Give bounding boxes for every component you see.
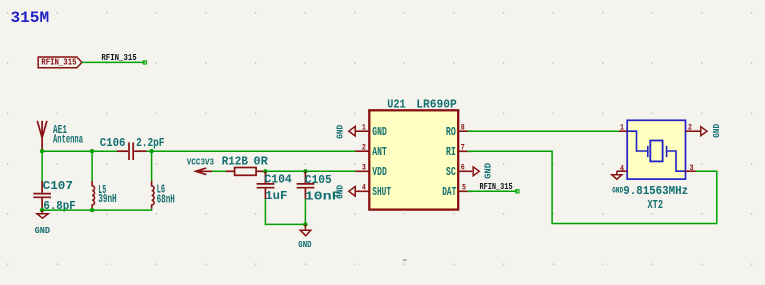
junction C107 bottom <box>40 208 44 212</box>
svg-text:4: 4 <box>362 183 366 193</box>
svg-text:0R: 0R <box>253 155 268 169</box>
svg-text:39nH: 39nH <box>98 192 116 206</box>
ground arrow at pin 4 <box>349 187 355 197</box>
svg-text:2: 2 <box>688 122 692 132</box>
svg-text:XT2: XT2 <box>648 198 664 212</box>
ground arrow at pin 1 <box>349 126 355 136</box>
wire RFIN_315 <box>82 61 145 63</box>
ground under C105 <box>300 224 311 235</box>
svg-text:1: 1 <box>362 123 366 133</box>
pin 6 SC stub <box>458 170 472 172</box>
svg-text:315M: 315M <box>11 9 50 27</box>
capacitor C107 <box>33 181 51 210</box>
pin 4 SHUT stub <box>355 190 369 192</box>
crystal pin 4 stub <box>617 170 627 172</box>
svg-text:GND: GND <box>711 124 722 138</box>
wire VCC to R12B <box>212 170 227 172</box>
ground under C107 <box>37 210 48 218</box>
wire DAT net <box>468 190 518 192</box>
svg-text:GND: GND <box>335 185 346 199</box>
ground arrow at pin 6 <box>473 167 479 176</box>
crystal pin 3 stub <box>685 170 696 172</box>
svg-text:VCC3V3: VCC3V3 <box>187 157 215 168</box>
svg-text:3: 3 <box>362 163 366 173</box>
capacitor C105 <box>297 171 315 199</box>
junction antenna <box>40 149 44 153</box>
wire bottom rail left <box>42 209 152 210</box>
svg-text:9.81563MHz: 9.81563MHz <box>623 184 688 198</box>
inductor L6 <box>152 181 154 209</box>
svg-text:5: 5 <box>462 183 466 193</box>
junction L5 top <box>90 149 94 153</box>
svg-text:C106: C106 <box>100 136 126 150</box>
stray mark <box>403 259 407 261</box>
svg-text:VDD: VDD <box>372 165 387 179</box>
wire antenna down to C107 <box>41 151 43 182</box>
svg-text:GND: GND <box>372 125 387 139</box>
resistor R12B <box>226 168 265 176</box>
wire RI route to crystal pin3 <box>468 151 717 223</box>
crystal internal symbol <box>627 131 685 171</box>
svg-text:RFIN_315: RFIN_315 <box>41 57 76 68</box>
wire ANT net horizontal <box>42 150 117 152</box>
svg-text:DAT: DAT <box>442 185 456 199</box>
capacitor C106 <box>117 142 147 160</box>
svg-text:8: 8 <box>461 123 465 133</box>
svg-text:3: 3 <box>690 163 694 173</box>
pin 3 VDD stub <box>355 170 369 172</box>
op IC U21 LR690P body <box>369 110 458 209</box>
svg-text:7: 7 <box>461 143 465 153</box>
pin 7 RI stub <box>458 150 472 152</box>
ground at crystal pin 4 <box>612 171 622 179</box>
wire C106 to pin2 <box>147 150 357 152</box>
crystal pin 2 stub <box>686 130 701 132</box>
svg-text:GND: GND <box>612 186 623 196</box>
wire RO to crystal pin1 <box>468 130 620 132</box>
svg-text:GND: GND <box>298 239 311 250</box>
svg-text:RO: RO <box>446 125 456 139</box>
svg-text:LR690P: LR690P <box>416 97 457 111</box>
pin 8 RO stub <box>458 130 472 132</box>
junction C105 top <box>303 169 307 173</box>
svg-text:2.2pF: 2.2pF <box>136 136 164 150</box>
svg-text:ANT: ANT <box>372 145 387 159</box>
svg-text:RFIN_315: RFIN_315 <box>480 181 513 192</box>
wire C104 bottom <box>265 199 305 224</box>
junction L5 bottom <box>90 208 94 212</box>
junction C105 bottom <box>303 222 307 226</box>
wire down to L6 <box>151 151 153 181</box>
junction L6 top <box>149 149 153 153</box>
svg-text:4: 4 <box>620 163 624 173</box>
antenna AE1 <box>37 121 47 151</box>
svg-text:SHUT: SHUT <box>372 185 391 199</box>
svg-text:68nH: 68nH <box>157 193 175 207</box>
power flag VCC3V3 <box>196 168 212 175</box>
svg-text:2: 2 <box>362 143 366 153</box>
hierarchical label RFIN_315 <box>38 57 82 68</box>
inductor L5 <box>92 181 94 209</box>
svg-text:U21: U21 <box>387 97 405 111</box>
svg-text:C105: C105 <box>305 173 332 187</box>
svg-text:GND: GND <box>335 125 346 139</box>
net label RFIN_315 at DAT <box>516 190 519 193</box>
wire C105 bottom <box>304 199 306 224</box>
wire down to L5 <box>91 151 93 181</box>
crystal pin 1 stub <box>619 130 627 132</box>
capacitor C104 <box>257 171 275 199</box>
svg-text:GND: GND <box>483 163 494 179</box>
svg-text:C104: C104 <box>264 173 291 187</box>
svg-text:GND: GND <box>35 225 51 236</box>
svg-text:RFIN_315: RFIN_315 <box>101 52 137 63</box>
svg-text:Antenna: Antenna <box>53 132 83 146</box>
pin 5 DAT stub <box>458 190 472 192</box>
svg-text:SC: SC <box>446 165 456 179</box>
svg-text:1: 1 <box>620 122 624 132</box>
pin 1 GND stub <box>355 130 369 132</box>
junction C104 top <box>263 169 267 173</box>
ground arrow at crystal pin 2 <box>701 127 707 136</box>
svg-text:1uF: 1uF <box>265 189 287 203</box>
svg-text:6: 6 <box>461 163 465 173</box>
crystal XT2 body <box>627 120 685 179</box>
pin 2 ANT stub <box>355 150 369 152</box>
svg-text:R12B: R12B <box>222 155 248 169</box>
wire R12B to pin3 VDD <box>265 170 356 172</box>
svg-text:RI: RI <box>446 145 456 159</box>
svg-text:C107: C107 <box>43 179 73 193</box>
net label RFIN_315 <box>143 61 146 64</box>
